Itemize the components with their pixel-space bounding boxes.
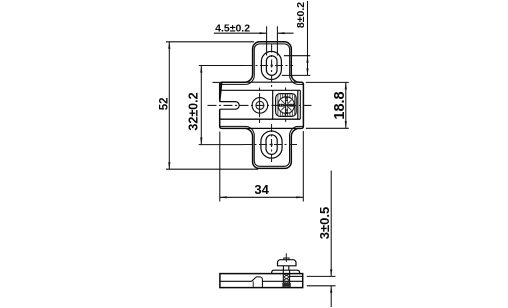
dim 34 line bbox=[220, 196, 303, 198]
top slot outer boss obround bbox=[261, 51, 281, 79]
dim 4.5 left extension bbox=[266, 26, 268, 55]
arrow 52 bottom bbox=[168, 162, 170, 169]
screw head top ridge bbox=[284, 258, 289, 260]
arrow 3 top bbox=[330, 269, 332, 276]
dim 3 line upper bbox=[330, 171, 332, 277]
arrow 18.8 top bbox=[345, 82, 347, 89]
dim 8 line bbox=[307, 1, 309, 75]
arrow 18.8 bottom bbox=[345, 121, 347, 128]
svg-text:34: 34 bbox=[254, 182, 269, 197]
centre circle outer bbox=[252, 98, 268, 114]
centerlines bbox=[208, 45, 312, 165]
main horizontal centerline bbox=[208, 104, 312, 106]
dim 32 extension bottom bbox=[199, 144, 244, 146]
band top edge across tab base bbox=[245, 81, 300, 83]
pozidriv recess bbox=[278, 97, 294, 113]
dim 3 line lower bbox=[330, 286, 332, 307]
euro screw head hatched square bbox=[276, 94, 297, 117]
arrow 32 bottom bbox=[200, 138, 202, 145]
dim 32 line bbox=[200, 66, 202, 145]
dim 18.8 extension top bbox=[306, 81, 349, 83]
top slot center dot bbox=[271, 64, 273, 66]
screw centerline bbox=[285, 253, 287, 262]
svg-text:32±0.2: 32±0.2 bbox=[187, 92, 201, 130]
recess bottom line bbox=[220, 118, 301, 120]
dim 4.5 right extension bbox=[276, 26, 278, 55]
dim 32 extension top bbox=[199, 65, 245, 67]
side view mid line bbox=[220, 280, 303, 282]
stray edge line left of band top bbox=[212, 81, 219, 83]
dim 34 extension right bbox=[302, 131, 304, 202]
dim 34 extension left bbox=[219, 132, 221, 202]
dim 52 extension top bbox=[166, 41, 254, 43]
top slot inner obround bbox=[266, 56, 277, 76]
centre circle inner bbox=[256, 101, 264, 109]
svg-text:52: 52 bbox=[159, 97, 171, 110]
inner contour top tab bbox=[220, 44, 304, 84]
recess top line bbox=[220, 89, 301, 91]
screw shaft bbox=[283, 270, 289, 287]
bottom slot center dot bbox=[270, 143, 272, 145]
dimension arrows bbox=[168, 32, 347, 293]
top slot horizontal centerline bbox=[245, 65, 293, 67]
cell vertical centerline bbox=[285, 88, 287, 123]
left open slot bbox=[220, 102, 240, 110]
bottom slot vertical centerline bbox=[271, 124, 273, 165]
dim 8 extension top bbox=[284, 55, 310, 57]
dimension graphics bbox=[166, 1, 349, 307]
arrow 52 top bbox=[168, 42, 170, 49]
dimension texts bbox=[159, 2, 349, 239]
cell second right line bbox=[299, 90, 301, 119]
dim 18.8 extension bottom bbox=[306, 127, 349, 129]
dim 52 line bbox=[168, 42, 170, 169]
side view plate bar bbox=[220, 274, 303, 288]
side view slot vertical tick bbox=[252, 281, 254, 287]
arrow 34 left bbox=[220, 196, 227, 198]
bottom slot horizontal centerline bbox=[244, 144, 298, 146]
dim 3 extension top bbox=[307, 275, 336, 277]
arrow 3 bottom bbox=[330, 286, 332, 293]
cell divider right bbox=[297, 90, 299, 119]
cell divider left bbox=[272, 90, 274, 119]
arrow 8 top bbox=[306, 56, 308, 63]
screw foot bbox=[282, 283, 291, 287]
screw boss pad bbox=[271, 270, 299, 273]
arrow 4.5 left bbox=[260, 32, 267, 34]
screw head bbox=[278, 260, 297, 266]
arrow 8 bottom bbox=[306, 68, 308, 75]
screw neck bbox=[283, 266, 288, 270]
arrow 34 right bbox=[296, 196, 303, 198]
top slot vertical centerline bbox=[271, 45, 273, 89]
svg-text:18.8: 18.8 bbox=[332, 91, 348, 119]
bottom slot inner obround bbox=[266, 135, 277, 155]
side view slot ramp profile bbox=[252, 277, 263, 288]
screw circle white bbox=[278, 97, 295, 114]
dim 52 extension bottom bbox=[166, 168, 258, 170]
dim 4.5 line right tail bbox=[277, 32, 293, 34]
arrow 32 top bbox=[200, 66, 202, 73]
dim 8 extension bottom bbox=[282, 74, 311, 76]
svg-text:8±0.2: 8±0.2 bbox=[295, 2, 307, 28]
dim 4.5 line left tail bbox=[214, 32, 267, 34]
screw thread hatch bbox=[283, 274, 289, 287]
bottom slot outer boss obround bbox=[261, 131, 282, 158]
centre circle vertical centerline bbox=[259, 88, 261, 124]
dim 3 extension bottom bbox=[307, 285, 336, 287]
mounting plate outer contour bbox=[220, 42, 304, 169]
svg-text:4.5±0.2: 4.5±0.2 bbox=[215, 23, 250, 35]
arrow 4.5 right bbox=[277, 32, 284, 34]
inner contour bottom tab bbox=[220, 126, 304, 166]
svg-text:3±0.5: 3±0.5 bbox=[317, 207, 332, 239]
side view right step line bbox=[290, 275, 303, 277]
band bottom edge across tab base bbox=[245, 127, 300, 129]
dim 18.8 line bbox=[345, 82, 347, 128]
